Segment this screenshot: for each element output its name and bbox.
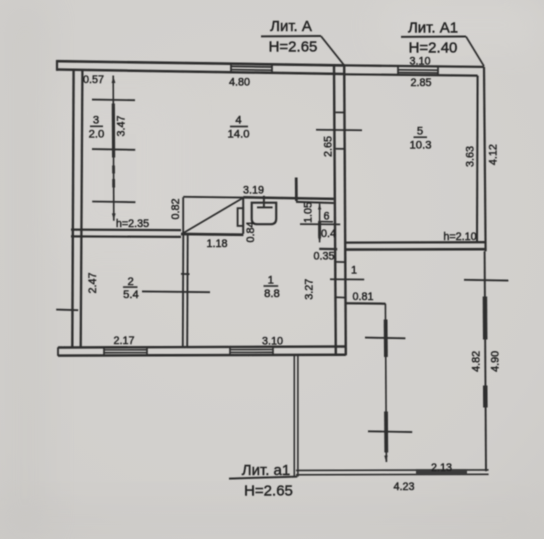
svg-text:Лит. а1: Лит. а1 [242,462,290,479]
svg-text:0.81: 0.81 [352,291,373,303]
svg-text:1.05: 1.05 [303,202,315,223]
svg-text:3.10: 3.10 [409,55,430,67]
svg-text:1.18: 1.18 [206,238,227,250]
svg-text:0.57: 0.57 [83,74,104,86]
svg-text:4.80: 4.80 [229,77,250,89]
svg-text:3.27: 3.27 [304,279,316,300]
svg-text:h=2.10: h=2.10 [443,231,476,243]
svg-text:h=2.35: h=2.35 [116,218,149,230]
svg-text:3.47: 3.47 [116,115,128,136]
svg-text:3: 3 [93,115,99,127]
svg-text:5: 5 [417,126,423,138]
svg-text:2.85: 2.85 [410,77,431,89]
svg-text:4.23: 4.23 [393,481,414,493]
svg-text:2.47: 2.47 [87,272,99,293]
svg-text:0.35: 0.35 [313,250,334,262]
svg-text:2.0: 2.0 [89,128,105,140]
svg-text:14.0: 14.0 [228,129,250,141]
svg-text:4.12: 4.12 [488,144,500,165]
svg-text:0.84: 0.84 [245,221,257,242]
svg-text:Н=2.40: Н=2.40 [409,40,458,57]
svg-text:0.4: 0.4 [321,228,336,240]
svg-text:2.17: 2.17 [113,335,134,347]
svg-text:1: 1 [351,265,357,277]
svg-text:Лит. А: Лит. А [270,18,312,35]
svg-text:2.65: 2.65 [323,136,335,157]
svg-text:4.82: 4.82 [471,351,483,372]
svg-text:3.10: 3.10 [262,335,283,347]
svg-text:3.63: 3.63 [465,146,477,167]
svg-text:4.90: 4.90 [489,351,501,372]
svg-text:5.4: 5.4 [123,289,139,301]
svg-text:10.3: 10.3 [410,139,432,151]
svg-text:8.8: 8.8 [264,288,280,300]
svg-text:6: 6 [323,210,329,222]
svg-text:Н=2.65: Н=2.65 [269,39,318,56]
svg-text:1: 1 [268,275,274,287]
svg-text:3.19: 3.19 [243,184,264,196]
svg-text:2: 2 [128,276,134,288]
svg-text:2.13: 2.13 [431,462,452,474]
svg-text:Лит. А1: Лит. А1 [408,20,458,37]
svg-text:Н=2.65: Н=2.65 [244,483,293,500]
svg-text:0.82: 0.82 [170,198,182,219]
svg-text:4: 4 [235,115,241,127]
